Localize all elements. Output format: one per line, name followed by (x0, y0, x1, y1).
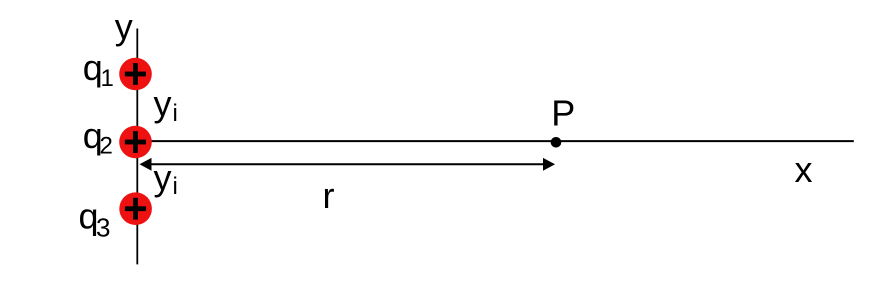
svg-text:P: P (551, 93, 575, 134)
svg-text:y: y (115, 6, 133, 47)
svg-text:3: 3 (96, 213, 110, 243)
svg-text:i: i (173, 100, 178, 127)
svg-text:y: y (154, 157, 172, 198)
svg-text:r: r (323, 175, 335, 216)
svg-text:2: 2 (100, 133, 113, 160)
svg-text:y: y (154, 83, 172, 124)
svg-text:1: 1 (101, 65, 114, 92)
svg-text:x: x (795, 149, 813, 190)
svg-text:i: i (173, 173, 178, 200)
